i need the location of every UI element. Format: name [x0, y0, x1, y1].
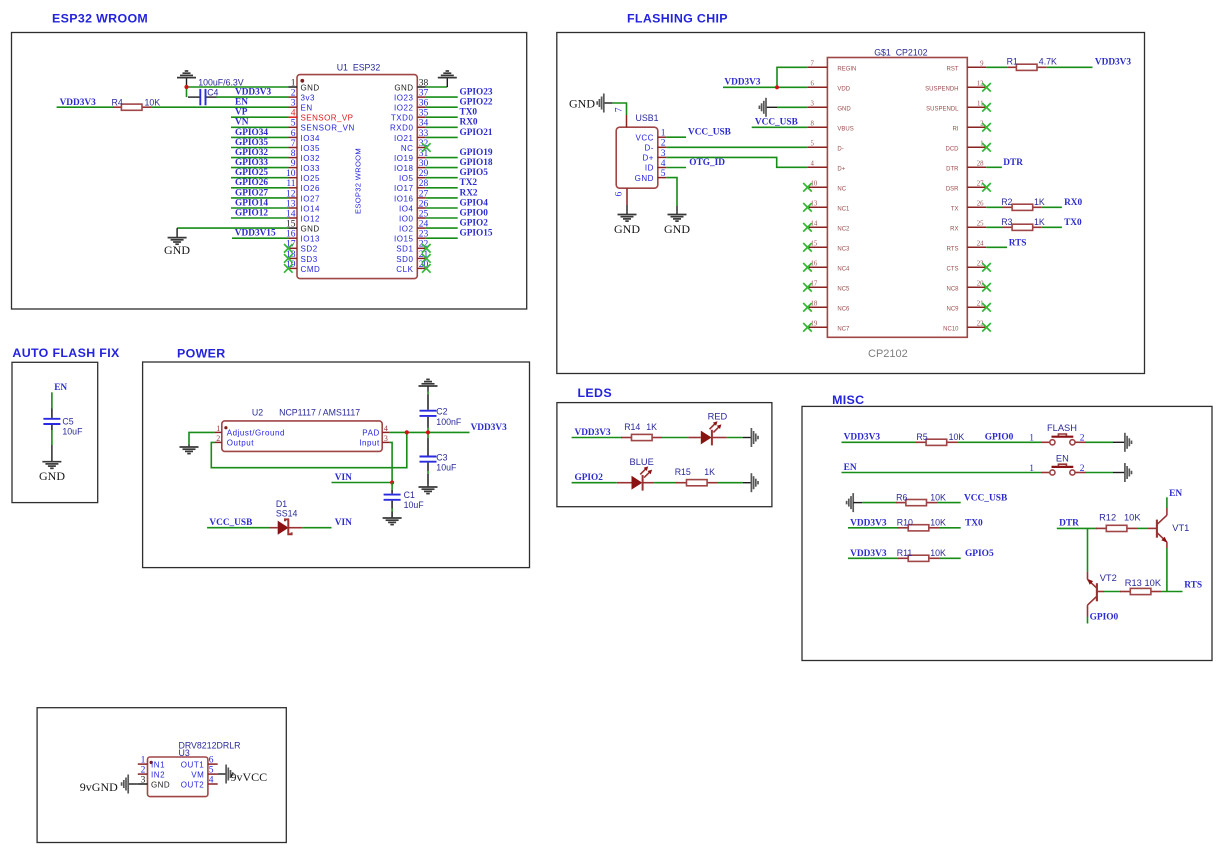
svg-text:PAD: PAD — [362, 429, 380, 438]
svg-text:IO32: IO32 — [301, 154, 321, 163]
U1 pin 5 (SENSOR_VN) — [289, 119, 355, 133]
wire VDD3V3 to R14 — [572, 437, 622, 439]
svg-text:IO14: IO14 — [301, 204, 321, 213]
wire R12 to VT1 base — [1137, 527, 1148, 529]
U1 pin 11 (IO26) — [286, 179, 320, 193]
svg-text:R10: R10 — [897, 518, 913, 528]
wire R10 to TX0 — [939, 527, 961, 529]
resistor R11 leads — [898, 557, 909, 559]
CP2102 pin 4 (D+) — [807, 161, 845, 173]
resistor R1 leads — [1007, 66, 1017, 68]
svg-text:GND: GND — [614, 222, 640, 236]
svg-text:FLASH: FLASH — [1047, 423, 1077, 433]
svg-text:IO19: IO19 — [394, 154, 414, 163]
svg-text:LEDS: LEDS — [578, 386, 612, 400]
no-connect X at U1 right pin — [422, 143, 431, 152]
svg-text:6: 6 — [615, 192, 625, 197]
svg-text:IO33: IO33 — [301, 164, 321, 173]
svg-text:9: 9 — [980, 61, 984, 68]
transistor VT1 (NPN) — [1148, 508, 1167, 548]
wire DTR — [986, 166, 1002, 168]
svg-text:U3: U3 — [179, 748, 190, 758]
svg-text:R6: R6 — [896, 492, 907, 502]
no-connect X at CP2102 left pin — [803, 263, 812, 272]
U1 pin 24 (IO2) — [399, 220, 429, 234]
wire U1 pin38 to ground — [426, 86, 448, 88]
wire U1 pin11 GPIO26 — [231, 187, 289, 189]
svg-text:EN: EN — [301, 104, 313, 113]
section frame POWER — [143, 362, 530, 568]
svg-text:ESP32 WROOM: ESP32 WROOM — [52, 11, 148, 25]
capacitor C5 10uF — [43, 409, 60, 431]
wire C4 to U1 pin2 — [217, 96, 289, 98]
svg-text:VT1: VT1 — [1172, 523, 1189, 533]
svg-text:VDD: VDD — [837, 87, 850, 93]
svg-text:EN: EN — [1169, 489, 1182, 499]
U1 pin 29 (IO5) — [399, 169, 429, 183]
svg-text:D-: D- — [837, 147, 843, 153]
svg-text:C2: C2 — [436, 407, 447, 417]
ground symbol right of red LED — [743, 428, 758, 447]
svg-text:IO2: IO2 — [399, 225, 414, 234]
LED BLUE (D?) — [617, 466, 654, 490]
svg-text:SENSOR_VP: SENSOR_VP — [301, 114, 354, 123]
wire U1 right row RX0 — [426, 126, 458, 128]
svg-text:GPIO33: GPIO33 — [235, 158, 268, 168]
ground symbol at U1 pin15 — [164, 228, 190, 257]
wire U1 pin14 GPIO12 — [231, 217, 289, 219]
USB1 pin 1 (VCC) — [635, 129, 666, 143]
junction PAD/C2-C3 — [426, 430, 430, 434]
svg-text:GPIO2: GPIO2 — [575, 473, 604, 483]
wire U1 pin7 GPIO35 — [231, 147, 289, 149]
svg-text:SD0: SD0 — [396, 255, 413, 264]
svg-text:CP2102: CP2102 — [868, 348, 908, 360]
svg-text:6: 6 — [291, 129, 296, 139]
wire LED to R15 — [654, 482, 677, 484]
svg-text:5: 5 — [661, 169, 666, 179]
ground symbol right of blue LED — [743, 473, 758, 492]
svg-text:C4: C4 — [207, 88, 218, 98]
wire EN to switch — [842, 472, 1042, 474]
CP2102 pin 27 (DSR) — [946, 181, 986, 193]
ground symbol right of EN switch — [1113, 463, 1132, 482]
U1 pin 23 (IO15) — [394, 230, 429, 244]
U2 pin-1 mark — [224, 426, 227, 429]
svg-text:4: 4 — [811, 161, 815, 168]
svg-text:RI: RI — [953, 127, 959, 133]
resistor R12 — [1106, 525, 1127, 531]
svg-text:GPIO12: GPIO12 — [235, 208, 268, 218]
no-connect X at CP2102 right pin — [982, 183, 991, 192]
svg-text:7: 7 — [615, 107, 625, 112]
wire U1 pin5 VN — [231, 126, 289, 128]
svg-text:VDD3V3: VDD3V3 — [844, 433, 881, 443]
svg-text:G$1 CP2102: G$1 CP2102 — [874, 47, 927, 57]
svg-text:IO17: IO17 — [394, 184, 414, 193]
svg-text:4: 4 — [661, 159, 666, 169]
svg-text:ID: ID — [645, 164, 654, 173]
U1 pin 15 (GND) — [286, 220, 320, 234]
wire RX to R3 — [986, 226, 1002, 228]
svg-text:C1: C1 — [404, 490, 415, 500]
svg-text:VDD3V3: VDD3V3 — [724, 78, 761, 88]
svg-text:VDD3V3: VDD3V3 — [850, 518, 887, 528]
svg-text:OTG_ID: OTG_ID — [689, 158, 725, 168]
svg-text:GPIO14: GPIO14 — [235, 198, 268, 208]
U2 pin 1 (Adjust/Ground) — [215, 424, 285, 438]
USB1 pin 7 (shield top) — [615, 107, 627, 127]
resistor R12 leads — [1096, 527, 1107, 529]
resistor R11 — [908, 555, 929, 561]
U1 pin 18 (SD3) — [286, 250, 318, 264]
wire U1 right row GPIO22 — [426, 106, 458, 108]
CP2102 pin 13 (NC1) — [807, 201, 850, 213]
wire U1 right row GPIO18 — [426, 167, 458, 169]
wire VT1 collector to EN — [1166, 497, 1168, 508]
svg-text:BLUE: BLUE — [630, 457, 654, 467]
wire U1 right row TX2 — [426, 187, 458, 189]
wire VDD3V3 to R10 — [848, 527, 899, 529]
wire TX to R2 — [986, 206, 1002, 208]
svg-text:10uF: 10uF — [436, 463, 457, 473]
svg-text:VIN: VIN — [335, 518, 352, 528]
section frame FLASHING CHIP — [557, 33, 1145, 374]
wire U1 pin1 GND net — [187, 86, 289, 88]
ground symbol left of U2 — [180, 445, 199, 454]
no-connect X at CP2102 left pin — [803, 303, 812, 312]
ground symbol 9vGND — [80, 775, 128, 794]
resistor R6 — [906, 500, 927, 506]
svg-text:REGIN: REGIN — [837, 67, 856, 73]
svg-text:NC: NC — [837, 187, 846, 193]
U1 pin 10 (IO25) — [286, 169, 320, 183]
svg-text:SD1: SD1 — [396, 245, 413, 254]
svg-text:R15: R15 — [675, 467, 691, 477]
wire U1 pin9 GPIO33 — [231, 167, 289, 169]
capacitor C2 100nF — [420, 395, 437, 428]
wire REGIN to VDD3V3 net — [777, 67, 807, 87]
wire U1 pin16 IO13 — [232, 237, 289, 239]
svg-text:3: 3 — [384, 434, 388, 443]
svg-text:6: 6 — [811, 81, 815, 88]
svg-text:SD2: SD2 — [301, 245, 318, 254]
svg-text:IO22: IO22 — [394, 104, 414, 113]
svg-text:NC10: NC10 — [943, 327, 959, 333]
wire VT1 emitter down to RTS row — [1166, 548, 1168, 592]
svg-text:SD3: SD3 — [301, 255, 318, 264]
wire U1 pin13 GPIO14 — [231, 207, 289, 209]
resistor R10 leads — [898, 527, 909, 529]
CP2102 pin 22 (NC10) — [943, 321, 986, 333]
U1 pin 14 (IO12) — [286, 209, 320, 223]
svg-text:R12: R12 — [1099, 513, 1116, 523]
no-connect X at U1 pin17 — [284, 244, 293, 253]
IC G$1 CP2102 — [807, 47, 986, 360]
U3 pin 5 (VM) — [191, 766, 218, 780]
svg-text:4: 4 — [209, 775, 214, 785]
svg-text:VIN: VIN — [335, 473, 352, 483]
svg-text:4: 4 — [291, 109, 296, 119]
wire GPIO2 to LED — [572, 482, 617, 484]
wire VCC_USB to D1 anode — [207, 527, 269, 529]
svg-text:GND: GND — [39, 469, 65, 483]
USB1 pin 6 (shield bottom) — [615, 188, 628, 205]
no-connect X at CP2102 left pin — [803, 183, 812, 192]
svg-text:NC6: NC6 — [837, 307, 850, 313]
wire U1 right row GPIO4 — [426, 207, 458, 209]
svg-text:1: 1 — [1029, 464, 1034, 474]
CP2102 pin 10 (NC) — [807, 181, 846, 193]
no-connect X at CP2102 right pin — [982, 123, 991, 132]
svg-text:VDD3V3: VDD3V3 — [575, 428, 612, 438]
wire C3 to ground — [427, 471, 429, 474]
wire R14 to LED — [662, 437, 688, 439]
U3 body — [148, 757, 208, 797]
CP2102 body — [827, 58, 967, 338]
svg-text:U1 ESP32: U1 ESP32 — [337, 62, 381, 72]
section frame LEDS — [557, 403, 772, 507]
svg-text:25: 25 — [977, 221, 984, 228]
wire U1 right row RX2 — [426, 197, 458, 199]
svg-text:OUT2: OUT2 — [181, 780, 205, 789]
svg-text:GND: GND — [301, 83, 320, 92]
no-connect X at CP2102 left pin — [803, 223, 812, 232]
CP2102 pin 17 (NC5) — [807, 281, 850, 293]
svg-text:RTS: RTS — [1184, 580, 1202, 590]
no-connect X at U1 right pin — [422, 244, 431, 253]
USB1 pin 2 (D-) — [644, 139, 666, 153]
svg-text:GND: GND — [837, 107, 851, 113]
svg-text:DCD: DCD — [946, 147, 960, 153]
wire U1 right row TX0 — [426, 116, 458, 118]
IC U1 ESP32 (ESOP32 WROOM module) — [286, 62, 429, 278]
svg-text:TX0: TX0 — [965, 519, 983, 529]
svg-text:2: 2 — [661, 139, 666, 149]
no-connect X at CP2102 right pin — [982, 263, 991, 272]
resistor R2 leads — [1003, 206, 1014, 208]
no-connect X at CP2102 right pin — [982, 143, 991, 152]
svg-text:GPIO26: GPIO26 — [235, 178, 268, 188]
svg-text:1: 1 — [291, 78, 296, 88]
wire U1 right row GPIO2 — [426, 227, 458, 229]
resistor R4 leads — [113, 106, 124, 108]
wire EN net from VDD3V3 through R4 to U1 pin3 — [57, 106, 114, 108]
U3 pin 1 (IN1) — [138, 756, 165, 770]
CP2102 pin 1 (DCD) — [946, 141, 987, 153]
capacitor C3 10uF — [420, 438, 437, 471]
svg-text:R4: R4 — [112, 97, 123, 107]
resistor R15 leads — [676, 482, 687, 484]
svg-text:7: 7 — [811, 61, 815, 68]
svg-text:IO12: IO12 — [301, 214, 321, 223]
U1 pin 21 (SD0) — [396, 250, 428, 264]
resistor R5 — [926, 439, 947, 445]
wire U2 PAD to VDD3V3 — [389, 431, 469, 433]
svg-text:D+: D+ — [642, 154, 654, 163]
svg-text:10K: 10K — [930, 492, 946, 502]
U1 pin 28 (IO17) — [394, 179, 429, 193]
junction on pin1 wire — [184, 85, 188, 89]
svg-text:GPIO0: GPIO0 — [460, 208, 489, 218]
power symbol 9vVCC — [226, 765, 267, 784]
connector USB1 — [615, 107, 667, 205]
svg-text:RX0: RX0 — [460, 118, 478, 128]
ground symbol at U1 pin38 — [438, 71, 457, 87]
svg-text:VBUS: VBUS — [837, 127, 853, 133]
svg-text:IO16: IO16 — [394, 194, 414, 203]
svg-text:2: 2 — [141, 766, 146, 776]
svg-text:NC2: NC2 — [837, 227, 850, 233]
svg-text:R13: R13 — [1125, 578, 1142, 588]
resistor R4 — [121, 104, 142, 110]
wire DTR junction down to VT2 emitter — [1087, 528, 1089, 572]
svg-text:NC4: NC4 — [837, 267, 850, 273]
svg-text:GND: GND — [394, 83, 413, 92]
wire R15 to ground — [717, 482, 743, 484]
svg-text:100uF/6.3V: 100uF/6.3V — [198, 77, 244, 87]
svg-text:IO23: IO23 — [394, 94, 414, 103]
svg-text:28: 28 — [977, 161, 984, 168]
U2 pin 4 (PAD) — [362, 424, 389, 438]
svg-text:IO34: IO34 — [301, 134, 321, 143]
svg-text:C3: C3 — [436, 452, 447, 462]
resistor R15 — [687, 480, 708, 486]
svg-text:TX2: TX2 — [460, 178, 478, 188]
wire VT2 collector to GPIO0 — [1087, 617, 1089, 624]
svg-text:CTS: CTS — [947, 267, 959, 273]
svg-text:D-: D- — [644, 144, 654, 153]
regulator U2 NCP1117/AMS1117 — [215, 408, 390, 452]
section frame AUTO FLASH FIX — [12, 362, 98, 502]
CP2102 pin 2 (RI) — [953, 121, 987, 133]
CP2102 pin 12 (SUSPENDH) — [925, 81, 986, 93]
svg-text:IN1: IN1 — [151, 760, 165, 769]
svg-text:TX0: TX0 — [460, 108, 478, 118]
U3 pin 2 (IN2) — [138, 766, 165, 780]
svg-text:EN: EN — [54, 383, 67, 393]
wire U2 Input down to VIN — [389, 442, 392, 482]
resistor R10 — [908, 525, 929, 531]
capacitor C4 100uF/6.3V — [188, 89, 217, 105]
svg-text:8: 8 — [291, 149, 296, 159]
CP2102 pin 28 (DTR) — [946, 161, 986, 173]
no-connect X at CP2102 left pin — [803, 323, 812, 332]
svg-text:GPIO15: GPIO15 — [460, 229, 493, 239]
U2 pin 3 (Input) — [359, 434, 389, 448]
svg-text:GPIO0: GPIO0 — [985, 433, 1014, 443]
USB1 pin 5 (GND) — [635, 169, 667, 183]
resistor R6 leads — [896, 502, 907, 504]
CP2102 pin 25 (RX) — [950, 221, 986, 233]
wire R2 to RX0 — [1042, 206, 1062, 208]
svg-text:R1: R1 — [1007, 56, 1018, 66]
svg-text:VDD3V3: VDD3V3 — [60, 98, 97, 108]
svg-text:9: 9 — [291, 159, 296, 169]
svg-text:VDD3V3: VDD3V3 — [235, 88, 272, 98]
resistor R3 — [1012, 224, 1033, 230]
svg-text:IO5: IO5 — [399, 174, 414, 183]
junction REGIN/VDD — [775, 85, 779, 89]
svg-text:NC1: NC1 — [837, 207, 850, 213]
U1 pin 31 (IO19) — [394, 149, 429, 163]
wire LED to ground — [727, 437, 743, 439]
no-connect X at CP2102 right pin — [982, 283, 991, 292]
svg-text:VDD3V3: VDD3V3 — [1095, 58, 1132, 68]
svg-text:VCC: VCC — [635, 133, 654, 142]
no-connect X at CP2102 left pin — [803, 243, 812, 252]
wire C2 to VDD3V3 rail — [427, 428, 429, 439]
wire VDD3V3 to R5 — [842, 441, 918, 443]
svg-text:26: 26 — [977, 201, 984, 208]
svg-text:RTS: RTS — [947, 247, 959, 253]
capacitor C1 10uF — [384, 490, 401, 506]
wire VIN junction down to C1 — [391, 483, 393, 490]
CP2102 pin 24 (RTS) — [947, 241, 987, 253]
U1 pin 12 (IO27) — [286, 189, 320, 203]
svg-text:R5: R5 — [916, 432, 927, 442]
U1 pin 37 (IO23) — [394, 89, 429, 103]
U1 pin 22 (SD1) — [396, 240, 428, 254]
wire RST to R1 — [986, 66, 1007, 68]
U1 pin 16 (IO13) — [286, 230, 320, 244]
svg-text:IO4: IO4 — [399, 204, 414, 213]
USB1 pin 3 (D+) — [642, 149, 666, 163]
svg-text:1K: 1K — [646, 422, 657, 432]
svg-text:VDD3V3: VDD3V3 — [471, 423, 508, 433]
wire ground to R6 — [862, 502, 897, 504]
CP2102 pin 11 (SUSPENDL) — [926, 101, 986, 113]
svg-text:8: 8 — [811, 121, 815, 128]
svg-text:DTR: DTR — [946, 167, 959, 173]
svg-text:RED: RED — [708, 411, 728, 421]
svg-text:NCP1117 / AMS1117: NCP1117 / AMS1117 — [279, 408, 360, 418]
svg-text:7: 7 — [291, 139, 296, 149]
svg-text:VCC_USB: VCC_USB — [209, 518, 252, 528]
no-connect X at CP2102 left pin — [803, 283, 812, 292]
wire USB1 ID stub — [666, 167, 686, 169]
wire USB D- to CP2102 D- — [666, 146, 807, 148]
svg-text:VCC_USB: VCC_USB — [964, 493, 1007, 503]
U1 body — [297, 75, 417, 279]
wire U1 right row GPIO21 — [426, 136, 458, 138]
svg-text:6: 6 — [209, 756, 214, 766]
svg-text:VCC_USB: VCC_USB — [688, 128, 731, 138]
wire U1 pin10 GPIO25 — [231, 177, 289, 179]
ground symbol below USB1 pin6 — [614, 205, 640, 236]
wire U1 right row GPIO0 — [426, 217, 458, 219]
junction VIN/C1 — [390, 480, 394, 484]
svg-text:SUSPENDL: SUSPENDL — [926, 107, 959, 113]
wire VDD3V3 to R11 — [848, 557, 899, 559]
U1 pin 19 (CMD) — [286, 260, 320, 274]
ground symbol left of CP2102 GND pin — [759, 98, 777, 117]
wire R1 to VDD3V3 — [1047, 66, 1093, 68]
svg-text:TXD0: TXD0 — [391, 114, 414, 123]
CP2102 pin 14 (NC2) — [807, 221, 850, 233]
wire U1 right row GPIO23 — [426, 96, 458, 98]
U1 pin 6 (IO34) — [289, 129, 321, 143]
svg-text:ESOP32 WROOM: ESOP32 WROOM — [354, 148, 363, 214]
svg-text:2: 2 — [1080, 434, 1085, 444]
wire EN to C5 — [51, 392, 53, 408]
svg-text:SS14: SS14 — [276, 508, 298, 518]
svg-text:4: 4 — [384, 424, 388, 433]
wire from junction down to C4 — [186, 87, 188, 97]
svg-text:NC: NC — [401, 144, 414, 153]
ground symbol below USB1 pin5 — [664, 206, 690, 236]
svg-text:10K: 10K — [145, 97, 161, 107]
